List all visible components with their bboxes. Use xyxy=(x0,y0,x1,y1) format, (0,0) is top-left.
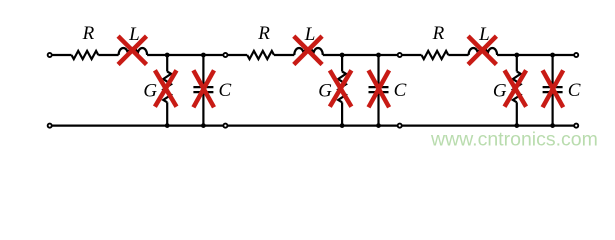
conductance G1 xyxy=(163,72,171,103)
wire bottom (return conductor) xyxy=(52,124,573,126)
cross-out X over C2 xyxy=(369,70,390,107)
cross-out X over G1 xyxy=(155,70,177,106)
svg-text:C: C xyxy=(219,80,232,101)
wire C1 branch lower lead xyxy=(202,93,204,125)
svg-text:R: R xyxy=(432,23,445,44)
conductance G2 xyxy=(338,72,346,103)
node C2 top xyxy=(376,53,381,58)
connector node between section 2 and 3 (bottom) xyxy=(398,124,402,128)
node G1 top xyxy=(165,53,170,58)
svg-text:R: R xyxy=(257,23,270,44)
cross-out X over C3 xyxy=(543,70,564,107)
inductor L2 xyxy=(294,48,323,55)
connector node between section 1 and 2 (top) xyxy=(223,53,227,57)
wire C2 branch upper lead xyxy=(377,55,379,86)
wire top section 1 (R1 to L1) xyxy=(98,54,118,56)
wire G3 branch lower lead xyxy=(516,102,518,125)
wire C3 branch lower lead xyxy=(551,93,553,125)
wire top section 2 (R2 to L2) xyxy=(274,54,294,56)
node G2 bottom xyxy=(340,123,345,128)
wire top section 3 (R3 to L3) xyxy=(448,54,468,56)
terminal input bottom xyxy=(48,124,52,128)
wire G1 branch upper lead xyxy=(166,55,168,72)
wire G1 branch lower lead xyxy=(166,102,168,125)
terminal input top xyxy=(48,53,52,57)
node G1 bottom xyxy=(165,123,170,128)
svg-text:www.cntronics.com: www.cntronics.com xyxy=(430,129,598,151)
wire top section 3 (L3 to next connector) xyxy=(497,54,576,56)
inductor L3 xyxy=(469,48,498,55)
wire C3 branch upper lead xyxy=(551,55,553,86)
capacitor C3 xyxy=(543,86,563,88)
node C2 bottom xyxy=(376,123,381,128)
wire G2 branch lower lead xyxy=(341,102,343,125)
wire top section 1 (terminal to R1) xyxy=(52,54,71,56)
connector node between section 2 and 3 (top) xyxy=(398,53,402,57)
wire top section 3 (terminal to R3) xyxy=(402,54,421,56)
svg-text:G: G xyxy=(493,81,507,102)
resistor R2 xyxy=(247,51,274,59)
svg-text:R: R xyxy=(82,23,95,44)
node C1 top xyxy=(201,53,206,58)
terminal output top xyxy=(574,53,578,57)
cross-out X over C1 xyxy=(193,70,214,107)
wire top section 2 (terminal to R2) xyxy=(228,54,247,56)
cross-out X over L2 xyxy=(294,36,322,64)
node C3 top xyxy=(550,53,555,58)
node G2 top xyxy=(340,53,345,58)
terminal output bottom xyxy=(574,124,578,128)
capacitor C2 xyxy=(369,86,389,88)
capacitor C1 xyxy=(193,86,213,88)
node G3 bottom xyxy=(514,123,519,128)
wire top section 2 (L2 to next connector) xyxy=(323,54,399,56)
wire C1 branch upper lead xyxy=(202,55,204,86)
wire C2 branch lower lead xyxy=(377,93,379,125)
cross-out X over G2 xyxy=(330,70,352,106)
wire G2 branch upper lead xyxy=(341,55,343,72)
resistor R3 xyxy=(422,51,449,59)
cross-out X over L3 xyxy=(468,36,496,64)
cross-out X over L1 xyxy=(118,36,146,64)
conductance G3 xyxy=(513,72,521,103)
wire top section 1 (L1 to next connector) xyxy=(147,54,225,56)
node C3 bottom xyxy=(550,123,555,128)
node C1 bottom xyxy=(201,123,206,128)
connector node between section 1 and 2 (bottom) xyxy=(223,124,227,128)
svg-text:G: G xyxy=(143,81,157,102)
svg-text:C: C xyxy=(568,80,581,101)
svg-text:C: C xyxy=(394,80,407,101)
cross-out X over G3 xyxy=(505,70,527,106)
resistor R1 xyxy=(72,51,99,59)
node G3 top xyxy=(514,53,519,58)
inductor L1 xyxy=(119,48,148,55)
wire G3 branch upper lead xyxy=(516,55,518,72)
svg-text:G: G xyxy=(318,81,332,102)
